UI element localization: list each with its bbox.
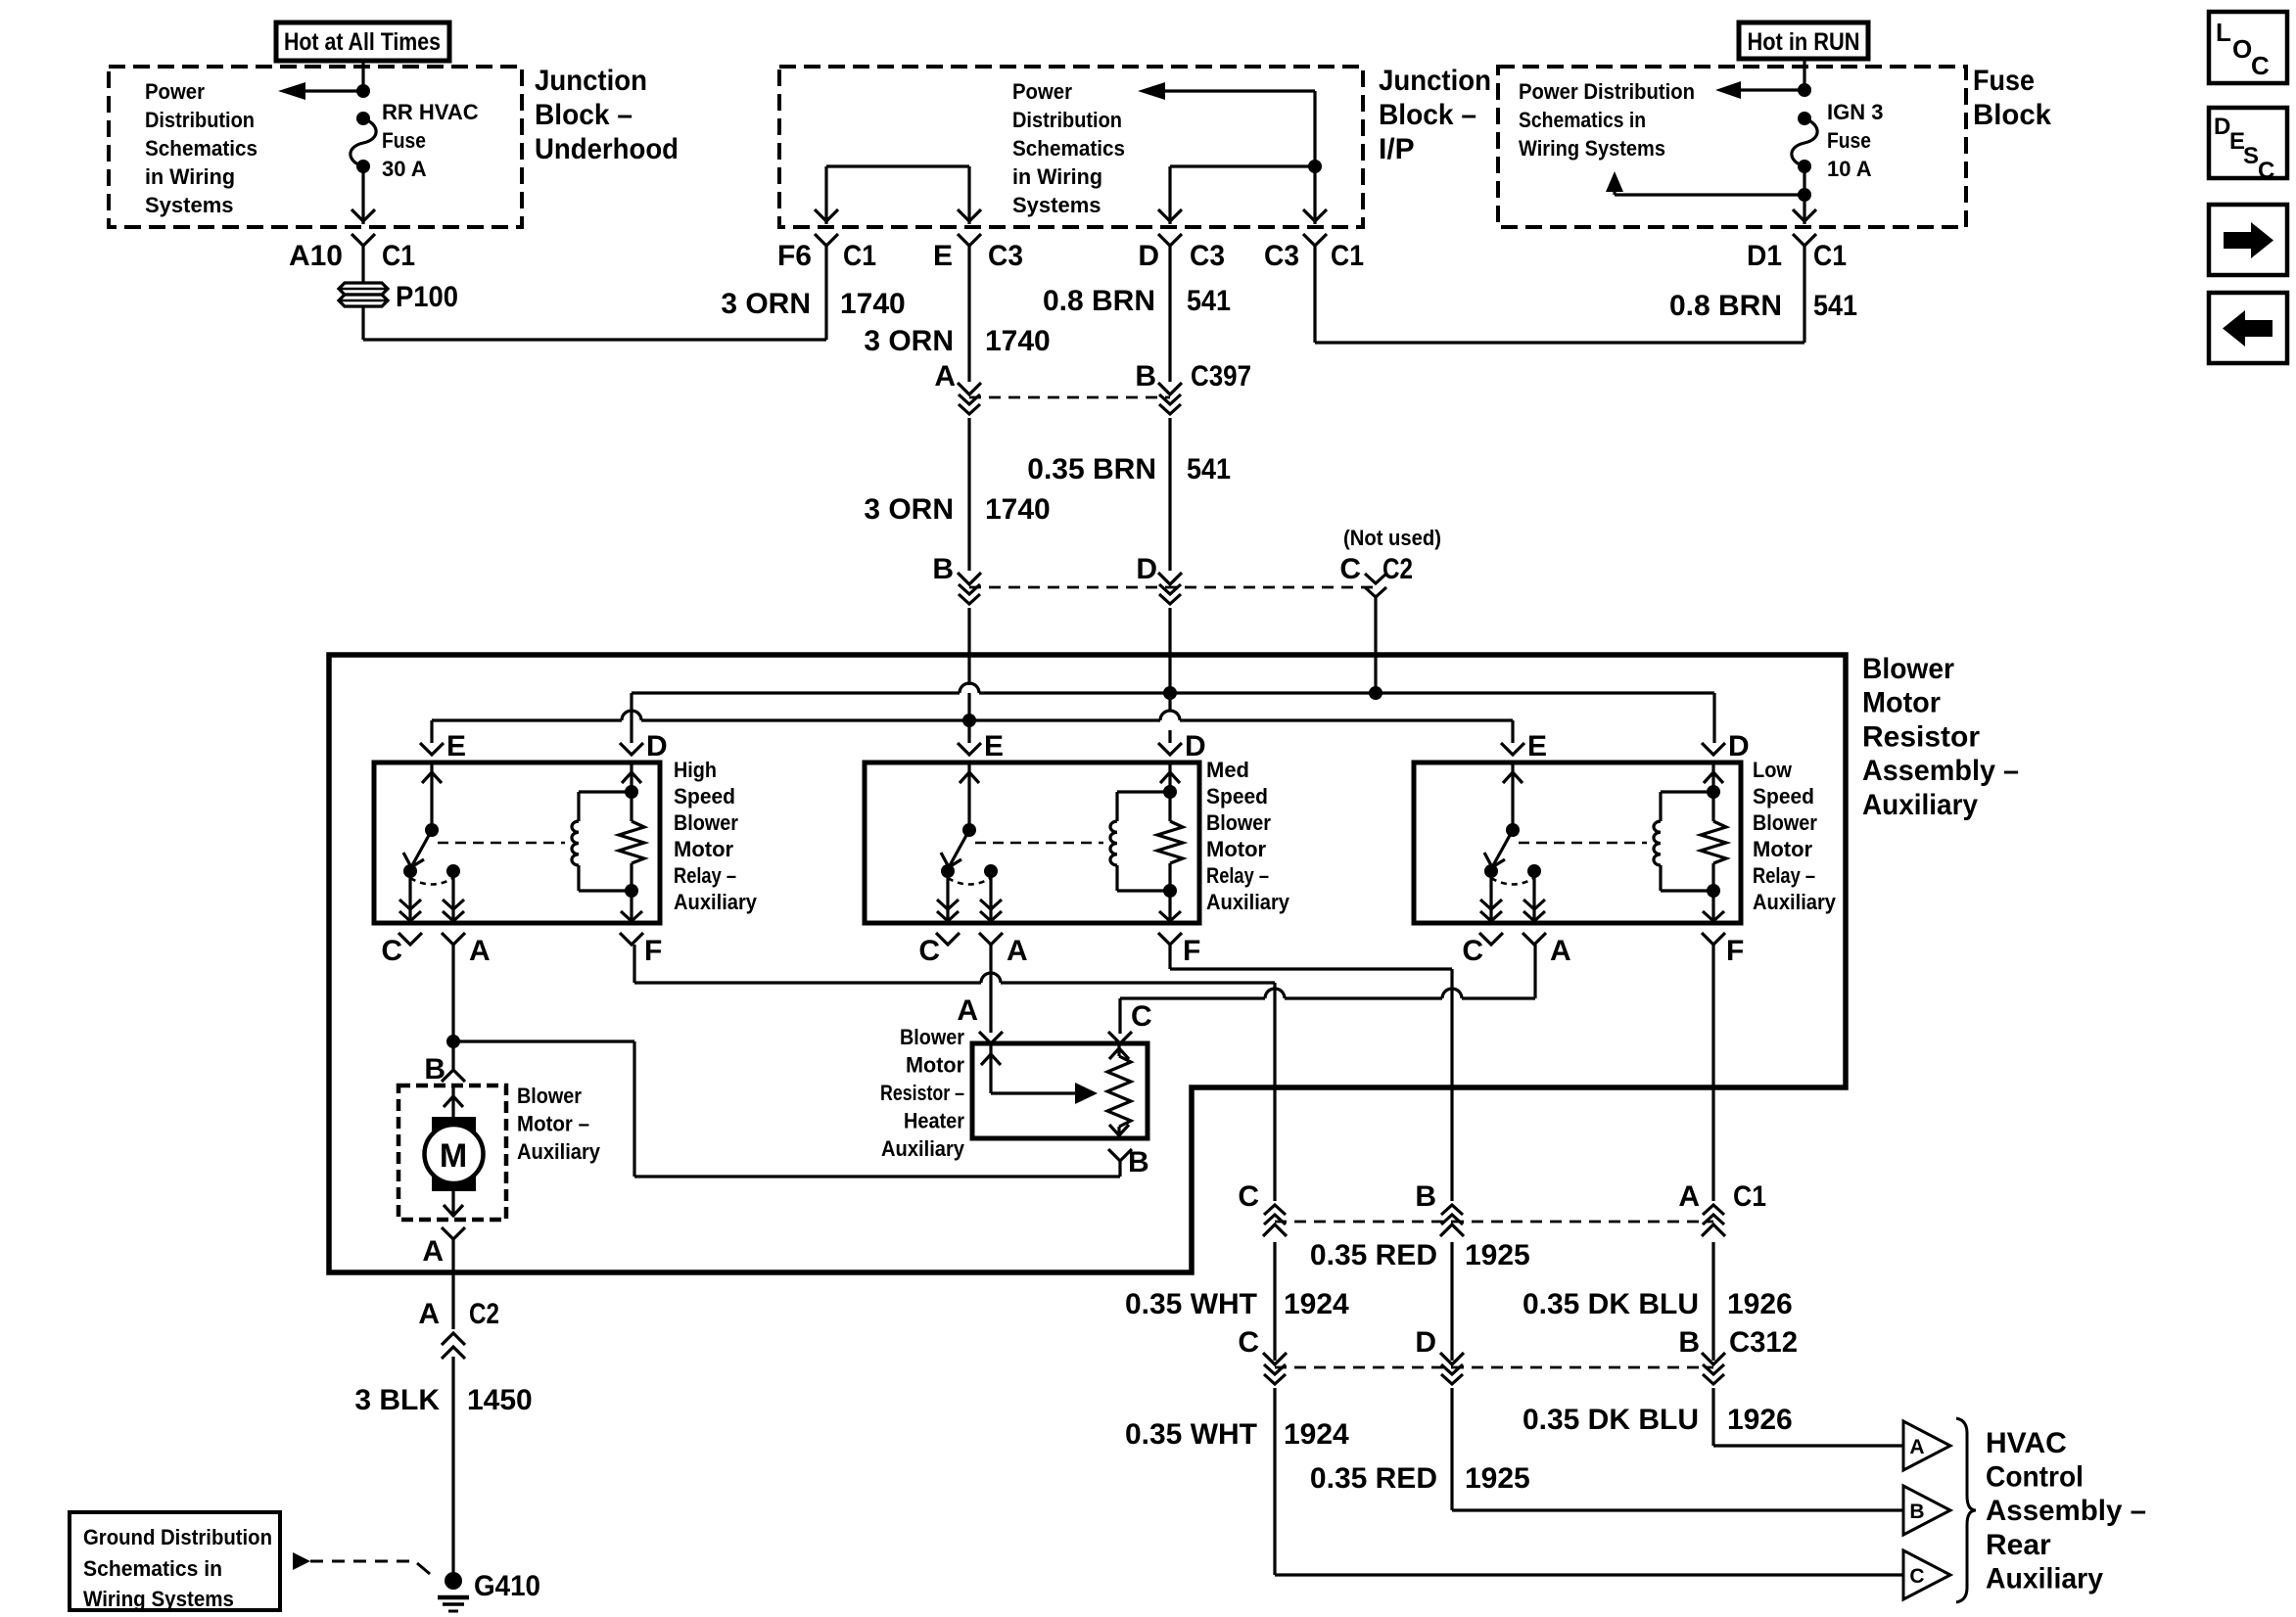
drop to relay3 E: [1511, 720, 1514, 743]
svg-text:Schematics in: Schematics in: [83, 1556, 222, 1581]
terminal C connector: [398, 933, 422, 945]
relay K3: Low Speed Blower Motor Relay - Auxiliary: [1414, 762, 1741, 923]
svg-text:D: D: [646, 730, 668, 762]
svg-text:3 BLK: 3 BLK: [354, 1384, 440, 1416]
switch common wire: [967, 764, 970, 830]
svg-text:Relay –: Relay –: [1753, 863, 1815, 888]
relay linkage dashed: [1519, 842, 1647, 845]
svg-text:Systems: Systems: [145, 193, 234, 217]
svg-text:541: 541: [1813, 290, 1857, 322]
svg-text:C312: C312: [1729, 1326, 1798, 1359]
connector A of C1: [1702, 1224, 1725, 1236]
wire relay3 A to heater C: [1533, 945, 1536, 998]
svg-text:Fuse: Fuse: [1827, 128, 1871, 153]
svg-text:A: A: [1909, 1436, 1924, 1458]
svg-text:3 ORN: 3 ORN: [721, 288, 811, 320]
svg-text:Resistor: Resistor: [1862, 720, 1980, 753]
svg-text:C: C: [1131, 1000, 1152, 1033]
wire 0.35 BRN continues: [1168, 418, 1171, 571]
ground distribution schematics box: [70, 1512, 280, 1610]
svg-text:B: B: [1135, 360, 1156, 393]
contact C wire: [1489, 871, 1492, 921]
svg-text:M: M: [440, 1137, 467, 1175]
pointer arrow up: [1615, 193, 1804, 196]
forward arrow box: [2209, 205, 2287, 275]
connector B of C312: [1702, 1353, 1725, 1364]
connector row C2 dashed: [969, 586, 1376, 589]
fuse IGN 3 10A: [1798, 112, 1811, 125]
hop relay2-F over relay3-A wire: [1442, 989, 1462, 998]
svg-text:B: B: [1909, 1501, 1924, 1523]
svg-text:C: C: [1462, 935, 1483, 967]
svg-text:Schematics in: Schematics in: [1519, 108, 1646, 132]
junction: [356, 84, 370, 98]
switch pivot: [962, 823, 976, 837]
svg-text:Motor: Motor: [906, 1053, 964, 1078]
svg-text:Relay –: Relay –: [674, 863, 736, 888]
contact C wire: [408, 871, 411, 921]
wire down to connector B: [1450, 969, 1453, 1201]
relay connector chevron E: [420, 743, 444, 755]
svg-text:E: E: [933, 240, 953, 272]
wire motor A down: [451, 1239, 454, 1329]
LOC reference box: [2209, 12, 2287, 83]
connector D/C3: [1158, 209, 1182, 221]
svg-text:F6: F6: [777, 240, 812, 272]
coil bumps: [1110, 821, 1117, 865]
connector row C1 dashed: [1275, 1221, 1452, 1224]
svg-text:F: F: [1183, 935, 1200, 967]
svg-text:C: C: [1238, 1180, 1259, 1213]
svg-text:S: S: [2243, 143, 2259, 169]
fuse block dashed box: [1498, 67, 1966, 227]
junction E bus / 3 ORN: [962, 714, 976, 727]
wire fuse to exit: [361, 166, 364, 224]
svg-text:Systems: Systems: [1012, 193, 1101, 217]
connector C of C1: [1263, 1224, 1287, 1236]
hop relay1-F over relay3-A wire: [1265, 989, 1285, 998]
svg-text:C3: C3: [988, 240, 1023, 272]
heater C connector: [1108, 1032, 1132, 1043]
svg-text:Resistor –: Resistor –: [880, 1081, 964, 1105]
wire 3 BLK to ground: [451, 1357, 454, 1575]
contact C: [941, 864, 955, 878]
bus D wire: [632, 691, 960, 694]
connector D1/C1: [1793, 209, 1816, 221]
svg-text:Power: Power: [1012, 79, 1072, 104]
svg-text:A: A: [957, 994, 978, 1027]
svg-text:E: E: [984, 730, 1004, 762]
svg-text:0.35 WHT: 0.35 WHT: [1125, 1418, 1257, 1451]
hop relay1-D drop over E bus: [622, 711, 641, 720]
svg-text:RR HVAC: RR HVAC: [382, 100, 479, 124]
svg-text:D: D: [1138, 240, 1159, 272]
svg-text:Blower: Blower: [1753, 810, 1817, 835]
svg-text:G410: G410: [474, 1570, 540, 1602]
heater B connector: [1108, 1149, 1132, 1161]
fuse RR HVAC 30A: [356, 112, 370, 125]
DESC reference box: [2209, 108, 2287, 178]
svg-text:High: High: [674, 758, 717, 782]
svg-text:Distribution: Distribution: [1012, 108, 1122, 132]
connector D: [1158, 573, 1182, 584]
switch pivot: [1506, 823, 1520, 837]
connector B of C1: [1440, 1224, 1464, 1236]
svg-text:Auxiliary: Auxiliary: [674, 890, 758, 914]
svg-text:30 A: 30 A: [382, 157, 427, 181]
svg-text:C3: C3: [1190, 240, 1225, 272]
ground G410: [445, 1572, 462, 1590]
motor brushes: [432, 1117, 476, 1136]
svg-text:Blower: Blower: [674, 810, 738, 835]
svg-text:Fuse: Fuse: [382, 128, 426, 153]
svg-text:Junction: Junction: [535, 65, 647, 97]
wire 0.35 BRN into assembly: [1168, 608, 1171, 693]
svg-text:B: B: [424, 1053, 445, 1086]
svg-text:0.35 DK BLU: 0.35 DK BLU: [1523, 1288, 1699, 1320]
svg-text:1740: 1740: [985, 493, 1051, 526]
ground pointer dashed arrow: [293, 1552, 310, 1570]
relay K1: High Speed Blower Motor Relay - Auxiliary: [374, 762, 660, 923]
heater wiper arm: [989, 1045, 992, 1093]
connector E/C3: [958, 209, 981, 221]
relay resistor: [1168, 792, 1171, 821]
svg-text:3 ORN: 3 ORN: [864, 325, 954, 357]
svg-text:Wiring Systems: Wiring Systems: [1519, 136, 1665, 161]
terminal F connector: [620, 933, 643, 945]
svg-text:(Not used): (Not used): [1343, 526, 1441, 550]
coil bumps: [1654, 821, 1661, 865]
F terminal wire: [1168, 891, 1171, 921]
wire to heater resistor B: [453, 1039, 634, 1042]
blower motor resistor assembly box: [329, 655, 1846, 1272]
connector D of C312: [1440, 1353, 1464, 1364]
svg-text:Blower: Blower: [1862, 653, 1954, 685]
svg-text:C1: C1: [382, 240, 415, 272]
svg-text:E: E: [1527, 730, 1547, 762]
wire 0.35 BRN vertical: [1168, 245, 1171, 382]
contact A: [984, 864, 998, 878]
Hot in RUN box: [1739, 23, 1868, 59]
connector B: [958, 573, 981, 584]
internal wire D: [1170, 164, 1315, 167]
junction: [1308, 160, 1322, 173]
svg-text:Control: Control: [1986, 1461, 2084, 1494]
svg-text:0.35 RED: 0.35 RED: [1310, 1239, 1437, 1271]
relay connector chevron D: [620, 743, 643, 755]
blower motor resistor heater box: [972, 1043, 1148, 1138]
wire to blower motor B: [451, 1041, 454, 1069]
svg-text:0.35 DK BLU: 0.35 DK BLU: [1523, 1404, 1699, 1436]
svg-text:Power: Power: [145, 79, 205, 104]
wire to P100: [361, 245, 364, 282]
svg-text:Speed: Speed: [1206, 784, 1268, 808]
svg-text:in Wiring: in Wiring: [145, 164, 235, 189]
drop to relay1 E: [430, 720, 433, 743]
wire down to connector C: [1273, 983, 1276, 1201]
HVAC terminal triangle C: [1903, 1550, 1950, 1599]
connector A/C2: [442, 1333, 465, 1345]
terminal A connector: [1523, 933, 1546, 945]
switch common wire: [430, 764, 433, 830]
svg-text:D: D: [1728, 730, 1750, 762]
svg-text:B: B: [932, 553, 954, 585]
wire to HVAC B: [1450, 1388, 1453, 1510]
svg-text:Low: Low: [1753, 758, 1793, 782]
svg-text:C1: C1: [1331, 240, 1364, 272]
svg-text:C: C: [1339, 553, 1361, 585]
svg-text:C: C: [2258, 158, 2274, 184]
svg-text:Motor: Motor: [1862, 687, 1941, 719]
junction: [1798, 188, 1811, 202]
relay connector chevron E: [958, 743, 981, 755]
wire 3 ORN continues: [967, 418, 970, 571]
wire P100 to junction block I/P pin F6: [361, 306, 364, 340]
back arrow box: [2209, 293, 2287, 363]
svg-text:Schematics: Schematics: [1012, 136, 1125, 161]
svg-text:0.8 BRN: 0.8 BRN: [1669, 290, 1782, 322]
connector C (Not used) C2: [1365, 574, 1386, 583]
svg-text:1450: 1450: [467, 1384, 533, 1416]
junction block I/P dashed box: [779, 67, 1363, 227]
svg-text:10 A: 10 A: [1827, 157, 1872, 181]
svg-text:C: C: [1909, 1565, 1924, 1588]
switch pivot: [425, 823, 439, 837]
svg-text:0.8 BRN: 0.8 BRN: [1043, 285, 1155, 317]
connector row C397 dashed: [969, 396, 1170, 399]
svg-text:Rear: Rear: [1986, 1529, 2051, 1561]
blower motor dashed box: [398, 1086, 506, 1220]
switch arm: [1492, 830, 1513, 867]
svg-text:C1: C1: [1733, 1180, 1766, 1213]
wires between rows: [1273, 1242, 1276, 1361]
HVAC terminal triangle A: [1903, 1421, 1950, 1470]
svg-text:Blower: Blower: [900, 1025, 964, 1049]
motor wire top: [451, 1086, 454, 1117]
svg-text:0.35 BRN: 0.35 BRN: [1027, 453, 1156, 485]
Hot at All Times box: [276, 23, 449, 61]
wire fuse to exit: [1803, 166, 1805, 224]
motor B connector: [442, 1070, 465, 1082]
relay connector chevron D: [1702, 743, 1725, 755]
wire relay1 A down: [451, 945, 454, 1041]
svg-text:Auxiliary: Auxiliary: [1986, 1562, 2103, 1594]
internal wire F6-E: [826, 164, 969, 167]
svg-text:Power Distribution: Power Distribution: [1519, 79, 1695, 104]
wire relay2 A down: [989, 945, 992, 1033]
connector A10/C1: [351, 209, 375, 221]
svg-text:Auxiliary: Auxiliary: [881, 1136, 965, 1161]
svg-text:A: A: [422, 1235, 444, 1268]
relay K2: Med Speed Blower Motor Relay - Auxiliary: [865, 762, 1199, 923]
svg-text:A: A: [1678, 1180, 1700, 1213]
terminal F connector: [1702, 933, 1725, 945]
connector C of C312: [1263, 1353, 1287, 1364]
wire from Hot in RUN: [1803, 59, 1805, 90]
svg-text:A: A: [418, 1298, 440, 1330]
wire D1 to junction I/P C1: [1803, 245, 1805, 343]
HVAC terminal triangle B: [1903, 1486, 1950, 1535]
svg-text:1926: 1926: [1727, 1404, 1793, 1436]
power distribution pointer arrow: [1741, 88, 1804, 91]
svg-text:D1: D1: [1747, 240, 1782, 272]
svg-text:Auxiliary: Auxiliary: [1206, 890, 1290, 914]
svg-text:C2: C2: [469, 1298, 499, 1330]
terminal C connector: [936, 933, 960, 945]
junction: [1798, 83, 1811, 97]
svg-text:541: 541: [1187, 285, 1231, 317]
terminal F connector: [1158, 933, 1182, 945]
heater A connector: [979, 1032, 1003, 1043]
connector F6/C1: [815, 209, 838, 221]
relay linkage dashed: [438, 842, 565, 845]
contact C: [403, 864, 417, 878]
svg-text:HVAC: HVAC: [1986, 1427, 2067, 1459]
svg-text:D: D: [2214, 114, 2230, 140]
svg-text:I/P: I/P: [1379, 133, 1415, 165]
svg-text:A: A: [1007, 935, 1028, 967]
svg-text:C: C: [381, 935, 402, 967]
internal wire C1 branch: [1313, 91, 1316, 224]
connector B C397: [1158, 383, 1182, 394]
connector C3/C1: [1303, 209, 1327, 221]
svg-text:Hot at All Times: Hot at All Times: [284, 28, 441, 56]
svg-text:Motor: Motor: [1753, 837, 1813, 861]
wire to HVAC A: [1711, 1388, 1714, 1446]
svg-text:Auxiliary: Auxiliary: [517, 1139, 601, 1164]
svg-text:C2: C2: [1382, 553, 1413, 585]
wire relay1 F: [633, 945, 635, 983]
contact A: [446, 864, 460, 878]
svg-text:F: F: [1726, 935, 1744, 967]
contact linkage arc dashed: [410, 878, 453, 885]
svg-text:Wiring Systems: Wiring Systems: [83, 1587, 234, 1611]
svg-text:Heater: Heater: [904, 1109, 964, 1133]
contact C: [1484, 864, 1498, 878]
switch common wire: [1511, 764, 1514, 830]
switch arm: [949, 830, 969, 867]
bus E wire: [432, 718, 622, 721]
svg-text:1925: 1925: [1465, 1239, 1530, 1271]
drop to relay3 D: [1712, 693, 1715, 743]
wire 3 ORN vertical: [967, 245, 970, 382]
svg-text:C1: C1: [1813, 240, 1847, 272]
svg-text:Auxiliary: Auxiliary: [1862, 789, 1978, 821]
relay resistor: [630, 792, 633, 821]
svg-text:Motor: Motor: [1206, 837, 1267, 861]
svg-text:A: A: [934, 360, 956, 393]
svg-text:P100: P100: [396, 281, 458, 313]
svg-text:B: B: [1128, 1146, 1149, 1178]
heater resistor element: [1109, 1048, 1129, 1059]
svg-text:Med: Med: [1206, 758, 1249, 782]
F terminal wire: [1711, 891, 1714, 921]
svg-text:E: E: [446, 730, 466, 762]
wire 3 ORN into assembly: [967, 608, 970, 685]
svg-text:Speed: Speed: [674, 784, 735, 808]
contact A wire: [451, 871, 454, 921]
wire from Hot at All Times: [361, 61, 364, 91]
switch arm: [411, 830, 432, 867]
svg-text:B: B: [1415, 1180, 1436, 1213]
svg-text:Auxiliary: Auxiliary: [1753, 890, 1837, 914]
terminal A connector: [979, 933, 1003, 945]
svg-text:Fuse: Fuse: [1973, 65, 2035, 97]
power distribution pointer arrow: [305, 89, 363, 92]
svg-text:Junction: Junction: [1379, 65, 1491, 97]
power distribution pointer arrow: [1165, 89, 1315, 92]
svg-text:Blower: Blower: [517, 1084, 582, 1108]
svg-text:A: A: [469, 935, 491, 967]
svg-text:C: C: [1238, 1326, 1259, 1359]
svg-text:1924: 1924: [1284, 1288, 1349, 1320]
svg-text:Motor: Motor: [674, 837, 734, 861]
motor wire bottom: [451, 1191, 454, 1217]
contact A wire: [1532, 871, 1535, 921]
contact A wire: [989, 871, 992, 921]
hop 0.35 BRN over E bus: [1160, 711, 1180, 720]
terminal C connector: [1479, 933, 1503, 945]
connector A C397: [958, 383, 981, 394]
motor M circle: [425, 1125, 484, 1183]
relay linkage dashed: [975, 842, 1103, 845]
svg-text:0.35 WHT: 0.35 WHT: [1125, 1288, 1257, 1320]
svg-text:L: L: [2216, 18, 2231, 47]
svg-text:D: D: [1185, 730, 1206, 762]
svg-text:1926: 1926: [1727, 1288, 1793, 1320]
svg-text:Assembly –: Assembly –: [1986, 1495, 2146, 1527]
contact linkage arc dashed: [1491, 878, 1534, 885]
wire C2 stub into assembly: [1374, 597, 1377, 693]
svg-text:1924: 1924: [1284, 1418, 1349, 1451]
wire relay3 F down: [1711, 945, 1714, 1201]
terminal A connector: [442, 933, 465, 945]
connector row C312 dashed: [1275, 1366, 1452, 1369]
svg-text:1925: 1925: [1465, 1462, 1530, 1495]
svg-text:Speed: Speed: [1753, 784, 1814, 808]
svg-text:Motor –: Motor –: [517, 1112, 589, 1136]
F terminal wire: [630, 891, 633, 921]
motor A connector: [442, 1227, 465, 1239]
svg-text:Underhood: Underhood: [535, 133, 679, 165]
svg-text:C3: C3: [1264, 240, 1299, 272]
svg-text:D: D: [1415, 1326, 1436, 1359]
junction: [446, 1035, 460, 1048]
svg-text:Block –: Block –: [535, 99, 633, 131]
svg-text:IGN 3: IGN 3: [1827, 100, 1883, 124]
svg-text:F: F: [644, 935, 662, 967]
wire to HVAC C: [1273, 1388, 1276, 1575]
svg-text:541: 541: [1187, 453, 1231, 485]
relay coil branch: [1168, 764, 1171, 792]
svg-text:Schematics: Schematics: [145, 136, 258, 161]
svg-text:Hot in RUN: Hot in RUN: [1748, 28, 1860, 56]
svg-text:1740: 1740: [985, 325, 1051, 357]
svg-text:0.35 RED: 0.35 RED: [1310, 1462, 1437, 1495]
coil bumps: [572, 821, 579, 865]
svg-text:Block –: Block –: [1379, 99, 1476, 131]
svg-text:C: C: [2251, 51, 2270, 80]
svg-text:O: O: [2232, 34, 2252, 64]
relay resistor: [1711, 792, 1714, 821]
svg-text:A: A: [1550, 935, 1571, 967]
svg-text:Block: Block: [1973, 99, 2051, 131]
contact C wire: [946, 871, 949, 921]
relay coil branch: [1711, 764, 1714, 792]
relay connector chevron D: [1158, 743, 1182, 755]
contact linkage arc dashed: [948, 878, 991, 885]
svg-text:1740: 1740: [840, 288, 906, 320]
